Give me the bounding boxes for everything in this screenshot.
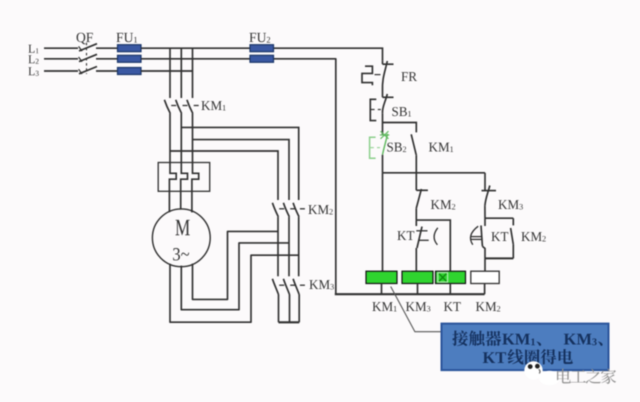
contact KT NC delayed: [416, 220, 438, 271]
wire rail SB1 to node: [382, 113, 384, 134]
wire FR to motor: [169, 191, 192, 212]
label SB2: [387, 143, 393, 152]
contactor KM1 main contacts: [164, 100, 198, 114]
contact KM1 auxiliary: [411, 134, 416, 173]
wire phase1 below KM1: [169, 114, 171, 163]
label KM1 aux: [429, 143, 438, 152]
wire phase3 below KM1: [192, 114, 194, 163]
watermark panda logo: [524, 361, 560, 385]
node L3: [28, 67, 34, 75]
callout box: [442, 324, 609, 371]
label KM1 main: [201, 101, 210, 110]
node L1: [28, 45, 34, 53]
wire KM2 coil to rail: [484, 284, 486, 295]
fuse FU1: [118, 45, 142, 75]
breaker QF: [79, 43, 97, 74]
wire QF to FU1 row3: [96, 70, 117, 72]
coil KM1 (energized): [366, 271, 397, 283]
label KM2 main: [308, 205, 317, 214]
label KM2 self-hold: [521, 232, 530, 241]
coil KT (energized, timer): [436, 271, 466, 283]
wire QF to FU1 row1: [96, 47, 117, 49]
contact KT NO delayed: [471, 218, 486, 258]
wire merge to KM2 coil: [484, 258, 486, 271]
pushbutton SB1 stop: [370, 94, 393, 121]
label FR: [401, 72, 407, 81]
wire bus row2: [141, 58, 250, 60]
wire tap phase1 to KM2 left column: [170, 151, 278, 200]
label coil KM1: [372, 302, 381, 311]
callout text line2: [483, 349, 573, 365]
wire L3 lead: [44, 70, 78, 72]
coil KM2 (de-energized): [471, 271, 499, 283]
watermark text: [557, 369, 571, 384]
wire main rail to KM1 coil: [382, 173, 384, 271]
label KM3 main: [309, 280, 318, 289]
node L2: [28, 55, 34, 63]
label KM3 aux: [498, 200, 507, 209]
coil KM3 (energized): [402, 271, 433, 283]
wire motor U2 outer loop: [170, 255, 299, 322]
wire QF to FU1 row2: [96, 58, 117, 60]
wire parallel merge: [485, 257, 513, 259]
label KM2 NC: [431, 200, 440, 209]
pushbutton SB2 start (green): [370, 131, 390, 158]
wire motor W2 inner loop: [193, 231, 279, 299]
wire KT coil to rail: [449, 284, 451, 295]
contact KM2 self-hold: [511, 228, 514, 258]
wire motor V2 middle loop: [181, 243, 289, 310]
label KT NO: [491, 232, 500, 241]
label QF: [77, 33, 86, 45]
wire KT coil tap: [416, 220, 450, 271]
wire KM1 coil to rail: [381, 284, 383, 295]
motor M 3~: [152, 209, 210, 267]
wire KM3 coil to rail: [417, 284, 419, 295]
wire L2 lead: [44, 58, 78, 60]
fuse FU2: [250, 45, 274, 63]
wire FU2 to control rails: [274, 48, 485, 294]
label KT NC: [397, 231, 406, 240]
contact KM2 NC: [416, 189, 428, 220]
thermal relay FR heater box: [158, 163, 210, 192]
label FU2: [249, 33, 256, 42]
thermal relay FR contact: [362, 61, 394, 91]
wire KM1 aux branch top: [383, 123, 417, 133]
label SB1: [392, 107, 398, 116]
leader line to callout: [391, 287, 442, 332]
wire rail FR to SB1: [382, 91, 384, 97]
label FU1: [116, 33, 123, 42]
wire tap phase2 to KM2 right column: [181, 127, 298, 200]
wire rail SB2 to node2: [382, 155, 384, 173]
wire main rail top: [382, 61, 384, 64]
label coil KM2: [476, 302, 485, 311]
wire phase drops to KM1: [170, 48, 193, 98]
contactor KM3 main contacts: [272, 279, 305, 323]
wire node2 horizontal: [383, 172, 486, 174]
label coil KT: [444, 302, 453, 311]
wire branch3 top: [484, 173, 486, 191]
wire bus row1: [141, 47, 250, 49]
wire star point bar: [279, 321, 300, 323]
contact KM3 auxiliary: [482, 186, 497, 219]
wire bus row3: [141, 70, 193, 72]
contactor KM2 main contacts: [272, 203, 305, 276]
FR heater elements: [169, 163, 198, 192]
wire tap phase3 to KM2 middle column: [193, 140, 290, 200]
wire branch2 top: [415, 173, 417, 191]
label coil KM3: [406, 302, 415, 311]
wire L1 lead: [44, 47, 78, 49]
wire phase2 below KM1: [180, 114, 182, 163]
callout text line1: [452, 330, 602, 346]
wire parallel split: [485, 218, 513, 225]
